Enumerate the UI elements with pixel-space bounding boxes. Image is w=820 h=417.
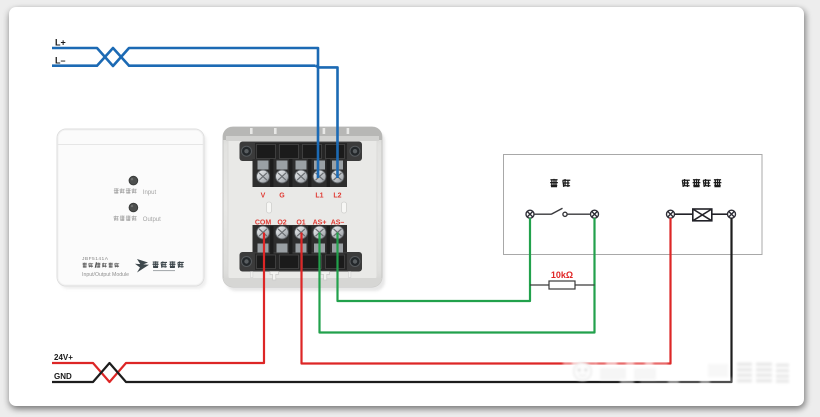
- svg-text:Output: Output: [143, 217, 161, 223]
- svg-text:L–: L–: [55, 56, 66, 66]
- label 输出动作 Output: [114, 216, 137, 221]
- svg-text:G: G: [279, 193, 285, 200]
- backplate body: [223, 127, 382, 287]
- top terminals V G - L1 L2: [257, 159, 344, 187]
- switch S1 (feedback contact): [534, 208, 591, 216]
- label 被控设备: [682, 179, 721, 187]
- wire GND (black): [52, 218, 732, 382]
- bottom terminal strip TB2: [240, 225, 363, 272]
- wire L+ (blue, to L1): [52, 48, 318, 178]
- module seam line: [57, 144, 204, 146]
- svg-text:Input/Output Module: Input/Output Module: [82, 272, 129, 278]
- mounting slot left: [267, 202, 272, 213]
- wire L- hop over L+ and drop to L2: [315, 66, 337, 178]
- wire AS+ to feedback right (green): [320, 218, 595, 333]
- controlled device load symbol: [675, 209, 728, 221]
- edge tick left: [251, 272, 253, 278]
- mounting tab bottom-right: [321, 272, 329, 281]
- svg-text:O1: O1: [296, 220, 305, 227]
- resistor R1 body: [549, 281, 575, 289]
- wire L- (blue, to L2): [52, 48, 315, 66]
- module U1 body: [57, 129, 204, 286]
- plate bottom edge band: [223, 278, 382, 287]
- svg-text:V: V: [261, 193, 266, 200]
- svg-text:Input: Input: [143, 190, 157, 196]
- svg-text:24V+: 24V+: [54, 353, 73, 362]
- bottom terminals COM O2 O1 AS+ AS-: [257, 226, 344, 254]
- wire 24V+ (red, to COM): [52, 233, 264, 383]
- svg-text:L+: L+: [55, 38, 66, 48]
- mounting tab bottom-left: [270, 272, 278, 281]
- LED input indicator: [129, 176, 138, 185]
- label 输入动作 Input: [114, 188, 137, 193]
- backplate shadow: [226, 131, 385, 291]
- svg-text:COM: COM: [255, 220, 272, 227]
- svg-text:L2: L2: [333, 193, 341, 200]
- label 输入/输出模块: [82, 262, 119, 268]
- LED output indicator: [129, 203, 138, 212]
- svg-text:GND: GND: [54, 372, 72, 381]
- box outline: [504, 155, 763, 255]
- node terminal X3 (device left): [667, 210, 675, 218]
- mounting slot right: [342, 202, 347, 213]
- svg-text:10kΩ: 10kΩ: [551, 270, 573, 280]
- node terminal X4 (device right): [728, 210, 736, 218]
- node terminal X2 (feedback right): [591, 210, 599, 218]
- svg-text:L1: L1: [315, 193, 323, 200]
- resistor R1 leads: [530, 284, 595, 286]
- svg-text:AS+: AS+: [313, 220, 327, 227]
- node terminal X1 (feedback left): [526, 210, 534, 218]
- svg-text:JBF5141A: JBF5141A: [82, 256, 109, 262]
- wire AS- to feedback left (green): [338, 218, 531, 301]
- module U1 shadow: [60, 132, 207, 289]
- edge tick right: [349, 272, 351, 278]
- logo bird 青鸟消防: [135, 259, 184, 273]
- wire O1 to device (red): [302, 218, 671, 364]
- svg-text:O2: O2: [277, 220, 286, 227]
- svg-text:AS–: AS–: [331, 220, 345, 227]
- top terminal strip TB1: [240, 142, 363, 188]
- label 反馈: [550, 179, 570, 187]
